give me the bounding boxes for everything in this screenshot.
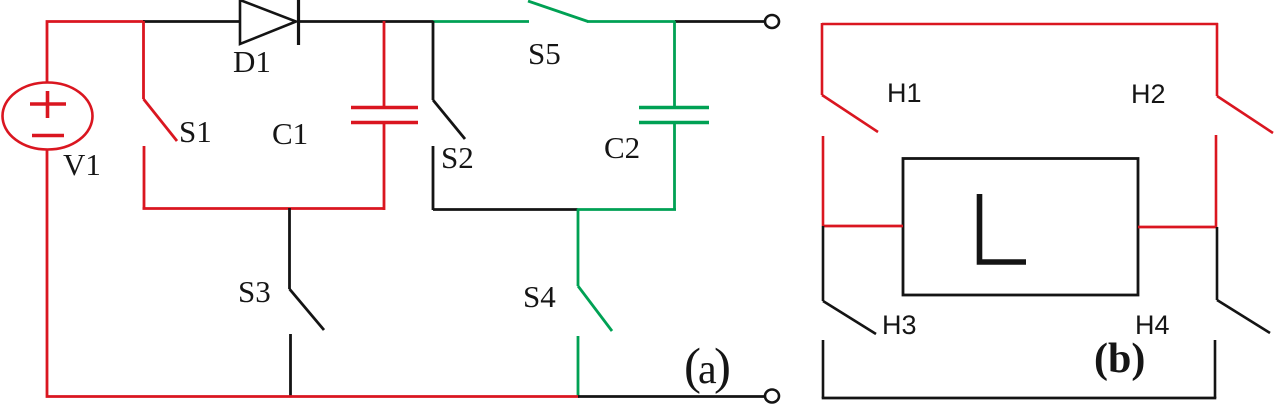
- diode D1: [240, 0, 299, 45]
- capacitor C2 (green): [639, 21, 709, 210]
- wire right mid red (load box to H2/H4 node): [1138, 226, 1217, 229]
- wire node A to diode anode (black): [143, 20, 241, 23]
- switch S2 (black): [433, 21, 465, 210]
- wire mid green (node D to C2 bottom lead): [577, 208, 676, 211]
- switch S5 (green blade): [528, 1, 588, 22]
- svg-text:C1: C1: [272, 116, 308, 151]
- switch S4 (green): [578, 209, 612, 397]
- svg-text:(b): (b): [1094, 336, 1145, 382]
- wire left mid red (H1/H3 node to load box): [822, 225, 903, 228]
- switch H3 (black): [823, 226, 876, 398]
- switch H2 (red): [1216, 23, 1273, 228]
- wire S5 to node C (green): [587, 20, 676, 23]
- switch S1 (red): [144, 21, 178, 209]
- svg-text:C2: C2: [604, 130, 640, 165]
- wire node B to switch S5 (green): [433, 20, 529, 23]
- wire node C to output terminal + (black): [675, 20, 765, 23]
- svg-text:S4: S4: [523, 279, 556, 314]
- wire mid black (S2 bottom to node D): [433, 208, 578, 211]
- switch S3 (black): [290, 208, 325, 397]
- svg-text:D1: D1: [233, 44, 271, 79]
- svg-text:S5: S5: [528, 36, 561, 71]
- svg-text:H1: H1: [887, 78, 922, 108]
- wire bottom red (V1 negative to node E): [47, 149, 579, 397]
- svg-text:V1: V1: [63, 147, 101, 182]
- wire V1 positive to node A (red, top-left): [47, 22, 145, 83]
- svg-text:S1: S1: [179, 114, 212, 149]
- load box: [903, 159, 1138, 296]
- voltage source V1: [3, 83, 93, 150]
- switch H1 (red): [822, 23, 878, 226]
- wire mid red (S1 bottom to C1 bottom): [143, 207, 386, 210]
- terminal output -: [765, 390, 779, 403]
- svg-text:S3: S3: [238, 274, 271, 309]
- wire top red (b): [822, 23, 1218, 26]
- svg-text:): ): [714, 339, 731, 395]
- svg-text:S2: S2: [441, 140, 474, 175]
- wire diode cathode to node B (black): [299, 20, 434, 23]
- svg-text:H2: H2: [1131, 79, 1166, 109]
- terminal output +: [765, 15, 779, 28]
- inductor L symbol: [980, 194, 1027, 262]
- capacitor C1 (red): [351, 21, 418, 210]
- wire bottom black (b): [822, 397, 1217, 400]
- svg-text:H3: H3: [882, 310, 917, 340]
- wire bottom black (node E to output terminal -): [578, 395, 765, 398]
- switch H4 (black): [1215, 227, 1270, 398]
